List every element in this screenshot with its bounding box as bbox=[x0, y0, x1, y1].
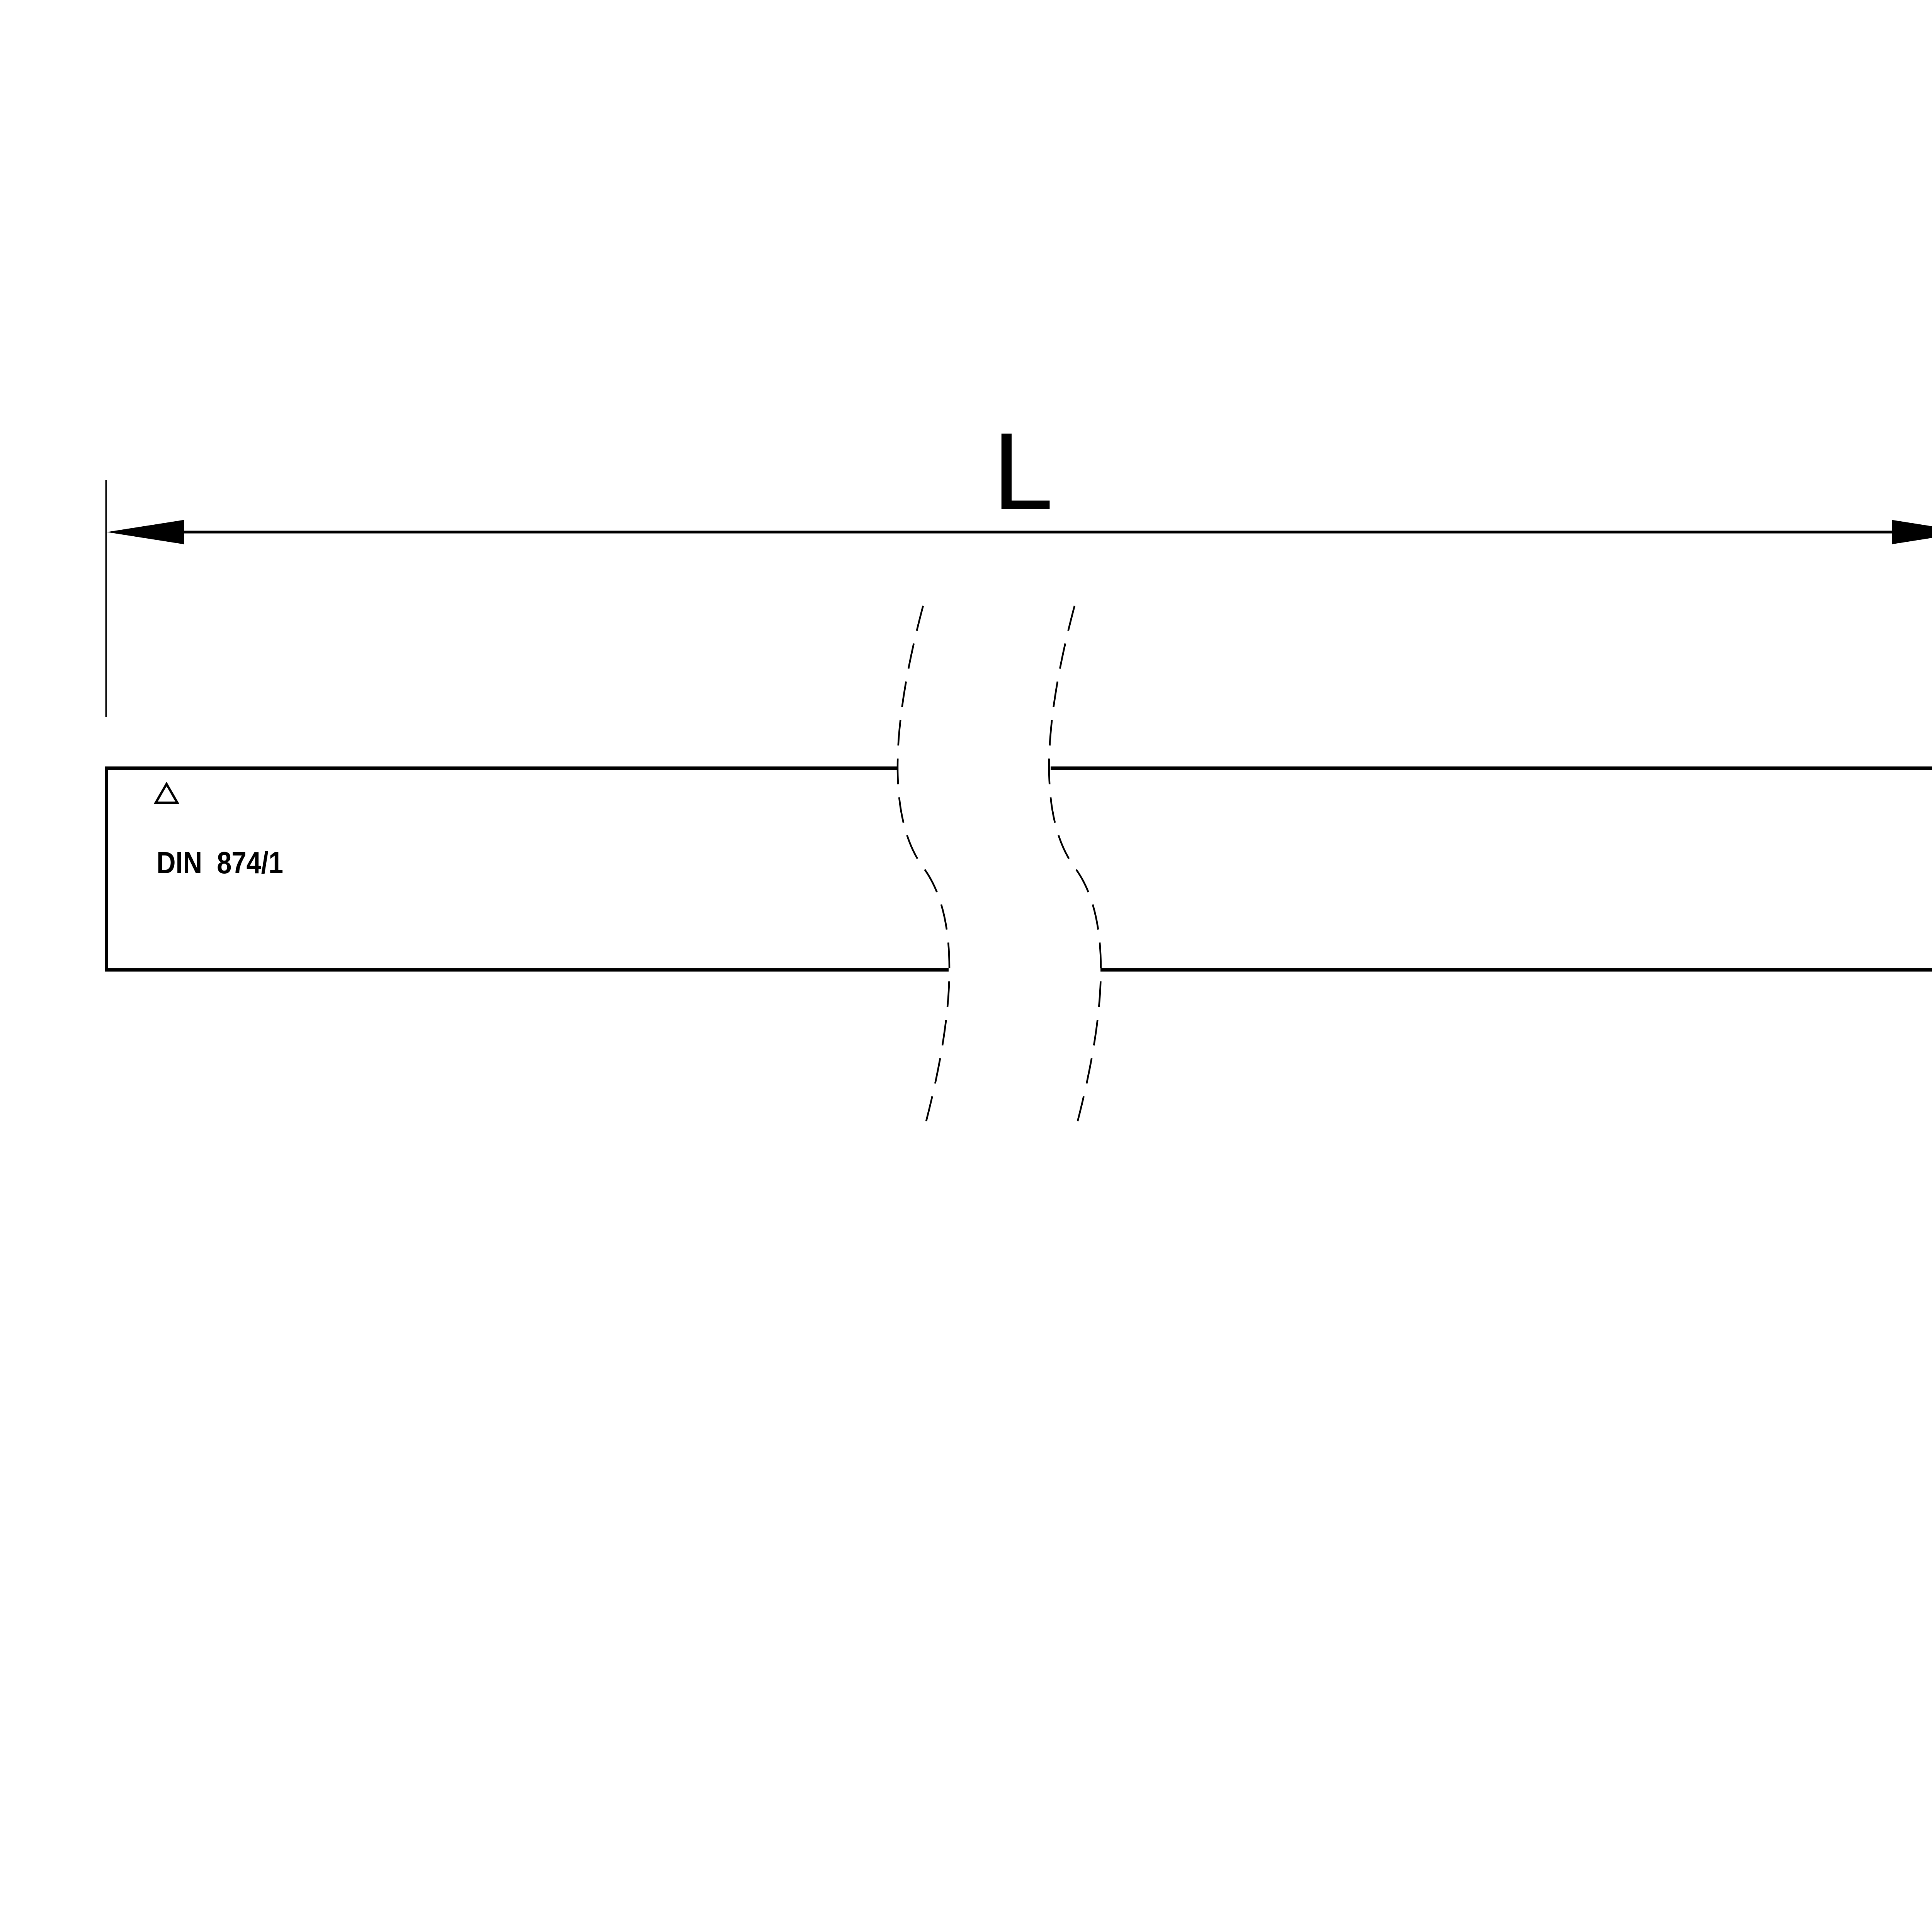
dimension L: left arrowhead bbox=[107, 520, 184, 544]
dimension L: left extension line bbox=[105, 480, 107, 717]
straightedge front view, right portion outline bbox=[1051, 768, 1932, 970]
straightedge front view, left portion outline bbox=[107, 768, 949, 970]
triangle mark inside front view bbox=[156, 784, 177, 803]
break line 2 (dashed S-curve) bbox=[1049, 604, 1101, 1131]
dimension L: dimension line bbox=[183, 531, 1893, 534]
svg-text:DIN 874/1: DIN 874/1 bbox=[156, 845, 283, 880]
break line 1 (dashed S-curve) bbox=[898, 604, 949, 1131]
dimension L: right arrowhead bbox=[1892, 520, 1932, 544]
svg-text:L: L bbox=[993, 410, 1053, 532]
